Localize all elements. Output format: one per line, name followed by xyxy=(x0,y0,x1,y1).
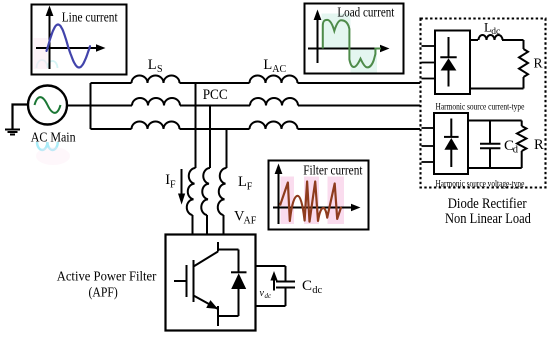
svg-text:AF: AF xyxy=(244,215,257,226)
svg-text:Harmonic source current-type: Harmonic source current-type xyxy=(436,102,525,112)
svg-text:F: F xyxy=(247,182,253,193)
svg-text:Active Power Filter: Active Power Filter xyxy=(57,268,157,284)
svg-text:Filter current: Filter current xyxy=(303,162,363,177)
svg-text:C: C xyxy=(302,278,312,294)
svg-text:AC: AC xyxy=(272,64,286,75)
svg-text:dc: dc xyxy=(265,292,273,300)
svg-text:AC Main: AC Main xyxy=(31,129,76,145)
svg-text:L: L xyxy=(238,174,247,190)
svg-text:L: L xyxy=(148,57,157,73)
svg-text:dc: dc xyxy=(491,27,500,37)
svg-text:R: R xyxy=(534,56,543,71)
svg-text:L: L xyxy=(263,57,272,73)
svg-text:Line current: Line current xyxy=(62,9,118,24)
svg-text:dc: dc xyxy=(312,285,322,296)
svg-text:S: S xyxy=(157,64,163,75)
svg-text:Load current: Load current xyxy=(337,4,394,20)
svg-text:(APF): (APF) xyxy=(89,284,118,299)
svg-text:Non Linear Load: Non Linear Load xyxy=(445,210,531,226)
svg-text:PCC: PCC xyxy=(203,88,228,104)
svg-text:R: R xyxy=(534,137,544,153)
svg-text:F: F xyxy=(170,179,176,190)
svg-text:Harmonic source voltage-type: Harmonic source voltage-type xyxy=(436,179,525,189)
svg-text:d: d xyxy=(513,145,519,156)
svg-text:Diode Rectifier: Diode Rectifier xyxy=(448,195,527,211)
